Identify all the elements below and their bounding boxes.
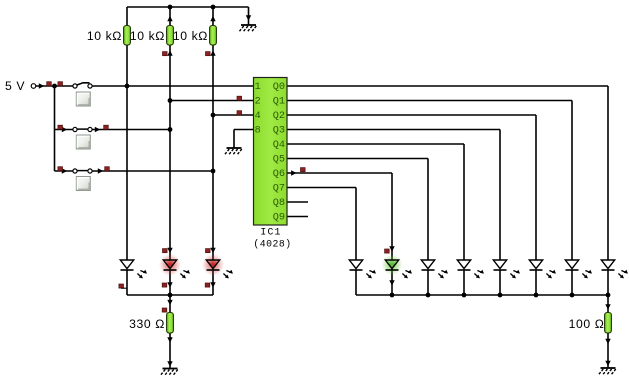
svg-text:1: 1 xyxy=(255,82,261,93)
svg-text:330 Ω: 330 Ω xyxy=(129,317,165,331)
svg-text:Q4: Q4 xyxy=(273,140,285,151)
svg-text:4: 4 xyxy=(255,111,261,122)
svg-text:Q3: Q3 xyxy=(273,126,285,137)
svg-text:Q8: Q8 xyxy=(273,198,285,209)
svg-text:10 kΩ: 10 kΩ xyxy=(130,29,165,43)
svg-text:Q2: Q2 xyxy=(273,111,285,122)
svg-text:8: 8 xyxy=(255,126,261,137)
svg-text:Q0: Q0 xyxy=(273,82,285,93)
svg-text:100 Ω: 100 Ω xyxy=(569,317,605,331)
svg-text:(4028): (4028) xyxy=(253,239,291,250)
svg-text:IC1: IC1 xyxy=(260,227,281,238)
svg-text:2: 2 xyxy=(255,97,261,108)
svg-text:Q7: Q7 xyxy=(273,184,285,195)
svg-text:Q6: Q6 xyxy=(273,169,285,180)
svg-text:Q5: Q5 xyxy=(273,155,285,166)
svg-text:5 V: 5 V xyxy=(5,79,25,93)
svg-text:Q9: Q9 xyxy=(273,213,285,224)
svg-text:Q1: Q1 xyxy=(273,97,285,108)
svg-text:10 kΩ: 10 kΩ xyxy=(173,29,208,43)
svg-text:10 kΩ: 10 kΩ xyxy=(87,29,122,43)
